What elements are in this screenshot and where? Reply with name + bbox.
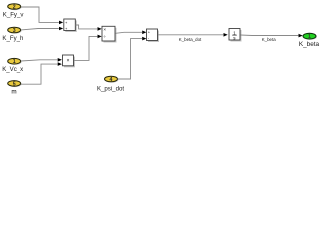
svg-text:×: × — [103, 27, 106, 32]
wire inport2 to sum1 in1 — [21, 7, 63, 24]
wire sum1 to divide in1 — [75, 25, 101, 31]
inport 4 K_psi_dot — [97, 76, 124, 92]
sum block 2 — [147, 29, 160, 42]
svg-text:1: 1 — [13, 59, 16, 65]
wire inport1 to product in1 — [21, 58, 62, 62]
svg-text:4: 4 — [110, 77, 113, 83]
svg-text:K_psi_dot: K_psi_dot — [97, 85, 124, 92]
svg-text:K_Vc_x: K_Vc_x — [2, 66, 23, 73]
wire inport4 to sum2 in2 — [118, 37, 147, 79]
divide block — [102, 26, 117, 42]
wire divide to sum2 in1 — [115, 31, 146, 35]
svg-text:K_beta_dot: K_beta_dot — [179, 37, 202, 42]
inport 1 K_Vc_x — [2, 58, 23, 72]
svg-text:1: 1 — [308, 34, 311, 40]
inport 3 K_Fy_h — [2, 27, 23, 42]
inport 5 m — [8, 81, 22, 96]
svg-text:m: m — [11, 89, 16, 96]
svg-text:K_beta: K_beta — [299, 41, 320, 48]
wire inport3 to sum1 in2 — [21, 27, 63, 31]
wire inport5 to product in2 — [21, 62, 62, 84]
svg-text:2: 2 — [13, 4, 16, 10]
wire sum2 to integrator, label K_beta_dot — [158, 33, 228, 42]
wire integrator to outport, label K_beta — [240, 34, 302, 42]
svg-text:K_Fy_h: K_Fy_h — [2, 35, 23, 42]
sum block 1 — [64, 19, 77, 32]
wire product to divide in2 — [74, 35, 102, 61]
svg-text:×: × — [66, 58, 69, 64]
svg-text:K_beta: K_beta — [262, 37, 276, 42]
product block (x) — [63, 55, 76, 67]
outport 1 K_beta — [299, 33, 320, 48]
svg-text:5: 5 — [13, 81, 16, 87]
integrator 1/s — [229, 29, 242, 42]
svg-text:K_Fy_v: K_Fy_v — [3, 12, 25, 19]
inport 2 K_Fy_v — [3, 4, 25, 19]
svg-text:3: 3 — [13, 28, 16, 34]
